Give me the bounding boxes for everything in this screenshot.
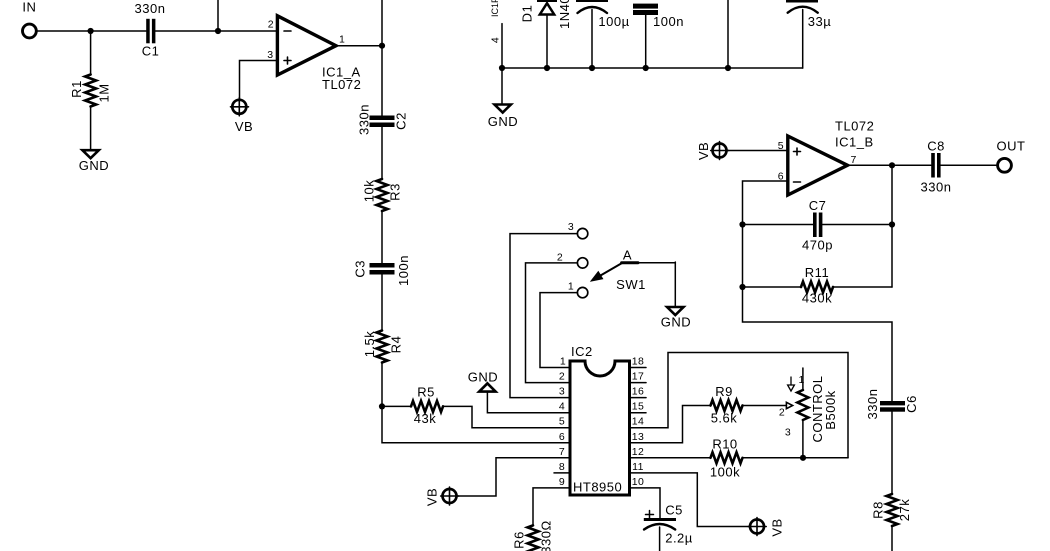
svg-text:R1: R1 [69,80,84,98]
wire R9 to pot wiper [743,405,787,407]
svg-text:3: 3 [267,49,273,61]
svg-text:33µ: 33µ [808,14,831,29]
svg-text:7: 7 [559,446,565,458]
capacitor C5 2.2u electrolytic [644,503,693,551]
svg-text:2.2µ: 2.2µ [665,531,693,546]
pin 15 number and stub [630,401,647,413]
wire op-amp output to junction [336,45,382,47]
svg-text:3: 3 [559,386,565,398]
node bus junction x728 [725,65,731,71]
wire R11 right lead [833,286,892,288]
wire contact 2 to IC2 pin 2 [526,263,578,383]
resistor R9 5.6k [711,384,743,426]
svg-text:TL072: TL072 [835,119,874,134]
switch SW1 pole arrow A [591,248,676,293]
capacitor C8 330n [921,139,952,195]
wire contact 3 to IC2 pin 3 [510,234,577,398]
capacitor C7 470p [802,198,833,253]
svg-text:6: 6 [559,431,565,443]
svg-text:5: 5 [559,416,565,428]
wire IN to C1 [37,30,146,32]
node junction R4/R5/pin6 [379,403,385,409]
svg-text:VB: VB [770,518,785,536]
node junction at x218 [215,28,221,34]
svg-text:R5: R5 [417,385,435,400]
ground GND (SW1) [661,307,691,330]
switch SW1 contact 1 [568,281,588,298]
node junction IN/R1 [88,28,94,34]
svg-text:VB: VB [425,488,440,506]
wire R3 to C3 [381,211,383,263]
wire IC2 pin 9 to R6 [533,488,570,526]
svg-text:C1: C1 [142,44,160,59]
wire IC2 pin 11 to VB [630,473,751,527]
supply VB (IC2 pin11) [748,518,784,537]
node output junction IC1_B [889,162,895,168]
resistor R1 1M [69,75,112,107]
svg-text:R8: R8 [871,501,886,519]
pin 8 number and stub [554,461,570,473]
wire GND to IC2 pin 4 [487,392,570,413]
capacitor 100n (supply) [633,4,684,68]
svg-text:2: 2 [779,407,785,419]
svg-text:12: 12 [632,446,644,458]
wire junction down to IC2 pin 6 [382,406,570,442]
resistor R8 27k [871,494,913,526]
node bus junction D1 [544,65,550,71]
svg-text:C2: C2 [394,112,409,130]
svg-text:R10: R10 [712,437,737,452]
svg-text:B500k: B500k [823,390,838,429]
svg-text:27k: 27k [897,499,912,521]
wire C7 right lead [822,224,892,226]
svg-text:D1: D1 [520,5,535,23]
wire down to R11 left [742,225,744,288]
svg-text:1M: 1M [97,83,112,102]
svg-text:330n: 330n [865,389,880,420]
wire op-amp output to OUT [848,164,932,166]
svg-text:9: 9 [559,476,565,488]
svg-text:2: 2 [559,371,565,383]
capacitor C3 100n [353,255,412,286]
svg-text:17: 17 [632,371,644,383]
svg-text:R11: R11 [805,265,829,280]
wire R5 to IC2 pin 5 [443,406,570,427]
wire output junction to C2 [381,46,383,116]
terminal IN [22,0,36,38]
wire jog from pin6 node to C6 [743,287,893,401]
wire IC2 pin 12 to R10 [630,457,711,459]
svg-text:C3: C3 [353,260,368,278]
wire pole to GND [674,262,676,307]
svg-text:330n: 330n [357,104,372,135]
ground GND (R1) [79,150,109,173]
capacitor C1 330n [135,1,166,59]
svg-text:100µ: 100µ [598,14,629,29]
svg-text:IC1_B: IC1_B [835,135,874,150]
wire C3 to R4 [381,275,383,331]
ground GND (IC2 pin4, arrow up) [468,370,498,392]
svg-text:GND: GND [661,315,691,330]
resistor R4 1.5k [362,331,404,363]
IC U2 IC2 HT8950 body [570,344,630,495]
node junction C7 left [739,221,745,227]
pin 17 number and stub [630,371,647,383]
svg-text:VB: VB [235,119,253,134]
svg-text:1: 1 [339,34,345,46]
wire R10 right to pot pin3 junction [743,457,849,459]
svg-text:4: 4 [559,401,565,413]
terminal OUT [997,139,1026,173]
svg-text:2: 2 [268,19,274,31]
supply VB (IC1_A pin3) [231,98,254,134]
wire vertical x728 (cut at top) [727,0,729,68]
switch SW1 contact 2 [557,252,588,269]
supply VB (IC1_B pin5) [696,142,729,161]
pin 18 number and stub [630,356,647,368]
wire up from output junction (cut at top) [381,0,383,46]
svg-text:1: 1 [560,356,566,368]
node junction pot pin3 [800,455,806,461]
svg-text:C8: C8 [927,139,945,154]
svg-text:10: 10 [632,476,644,488]
wire IC2 pin 14 loop to pot pin3 [630,353,849,458]
wire output junction down to R11 right [891,165,893,287]
wire R8 bottom (cut at bottom) [891,526,893,551]
op-amp U IC1_B TL072 [778,119,875,196]
supply VB (IC2 pin7) [425,487,459,506]
wire IC2 pin 13 to R9 [630,406,711,443]
svg-text:1: 1 [568,281,574,293]
wire op-amp pin3 to VB [240,61,278,100]
wire C1 to op-amp pin 2 [155,30,277,32]
svg-text:C6: C6 [904,395,919,413]
svg-text:470p: 470p [802,238,833,253]
resistor R6 330ohm [512,520,554,551]
wire R4 to junction [381,363,383,407]
svg-text:GND: GND [488,114,518,129]
svg-text:IC2: IC2 [571,344,593,359]
resistor R3 10k [362,179,403,211]
svg-text:HT8950: HT8950 [573,480,622,495]
svg-text:1: 1 [799,374,805,386]
node output junction [379,43,385,49]
wire VB to op-amp pin5 [727,150,788,152]
svg-text:VB: VB [696,142,711,160]
svg-text:3: 3 [785,427,791,439]
svg-text:5.6k: 5.6k [711,411,738,426]
wire C8 to OUT [941,164,998,166]
svg-text:330Ω: 330Ω [539,520,554,551]
svg-text:IC1P: IC1P [490,0,500,17]
svg-text:16: 16 [632,386,644,398]
svg-text:13: 13 [632,431,644,443]
svg-text:IN: IN [22,0,36,15]
svg-text:1.5k: 1.5k [362,331,377,358]
svg-text:GND: GND [468,370,498,385]
svg-text:C7: C7 [809,198,827,213]
ground bus [502,67,803,69]
svg-text:330n: 330n [135,1,166,16]
svg-text:8: 8 [559,461,565,473]
svg-text:A: A [623,248,632,263]
wire up from junction (cut at top) [217,0,219,31]
wire R11 left lead [743,286,802,288]
svg-text:7: 7 [851,154,857,166]
capacitor 33u electrolytic [786,0,831,68]
ground GND (bus) [488,105,518,130]
capacitor 100u electrolytic [576,0,630,68]
svg-text:R3: R3 [388,183,403,201]
resistor R5 43k [411,385,443,427]
wire op-amp pin6 feedback left leg [743,181,788,225]
wire C7 left lead [743,224,814,226]
node bus junction 100u [589,65,595,71]
svg-text:OUT: OUT [997,139,1026,154]
svg-text:100n: 100n [396,255,411,286]
node junction C7 right [889,221,895,227]
svg-text:100k: 100k [710,465,740,480]
svg-text:15: 15 [632,401,644,413]
wire C2 to R3 [381,127,383,179]
svg-text:C5: C5 [665,503,683,518]
pin 16 number and stub [630,386,647,398]
wire bus to GND [501,68,503,104]
svg-text:10k: 10k [362,180,377,202]
node bus junction 1 [499,65,505,71]
svg-text:R6: R6 [512,531,527,549]
svg-text:4: 4 [490,37,502,43]
wire C6 to R8 [891,412,893,494]
diode D1 1N4007 [520,0,573,68]
capacitor C2 330n [357,104,409,135]
wire R1 bottom lead [90,107,92,150]
node junction R11 left [739,284,745,290]
wire IC2 pin 7 to VB [457,458,570,496]
svg-text:430k: 430k [802,291,832,306]
wire IC2 pin 10 to C5 [630,488,661,518]
resistor R11 430k [801,265,833,306]
node bus junction 100n [643,65,649,71]
svg-text:TL072: TL072 [322,77,361,92]
wire contact 1 to IC2 pin 1 [540,293,577,368]
svg-text:5: 5 [778,140,784,152]
svg-text:43k: 43k [414,411,436,426]
capacitor C6 330n [865,389,919,420]
svg-text:2: 2 [557,252,563,264]
svg-text:3: 3 [568,221,574,233]
svg-text:100n: 100n [653,14,684,29]
svg-text:14: 14 [632,416,644,428]
svg-text:1N4007: 1N4007 [557,0,572,29]
svg-text:330n: 330n [921,180,952,195]
wire R1 top lead [90,31,92,75]
switch SW1 contact 3 [568,221,588,239]
potentiometer CONTROL B500k [779,368,838,458]
svg-text:R9: R9 [715,384,733,399]
wire IC1 power pin 4 (cut at top) [490,0,503,68]
svg-text:11: 11 [632,461,644,473]
svg-text:GND: GND [79,158,109,173]
resistor R10 100k [710,437,743,480]
op-amp U IC1_A TL072 [267,16,361,92]
wire junction to R5 [382,405,411,407]
svg-text:R4: R4 [389,336,404,354]
svg-text:SW1: SW1 [616,277,646,292]
svg-text:18: 18 [632,356,644,368]
